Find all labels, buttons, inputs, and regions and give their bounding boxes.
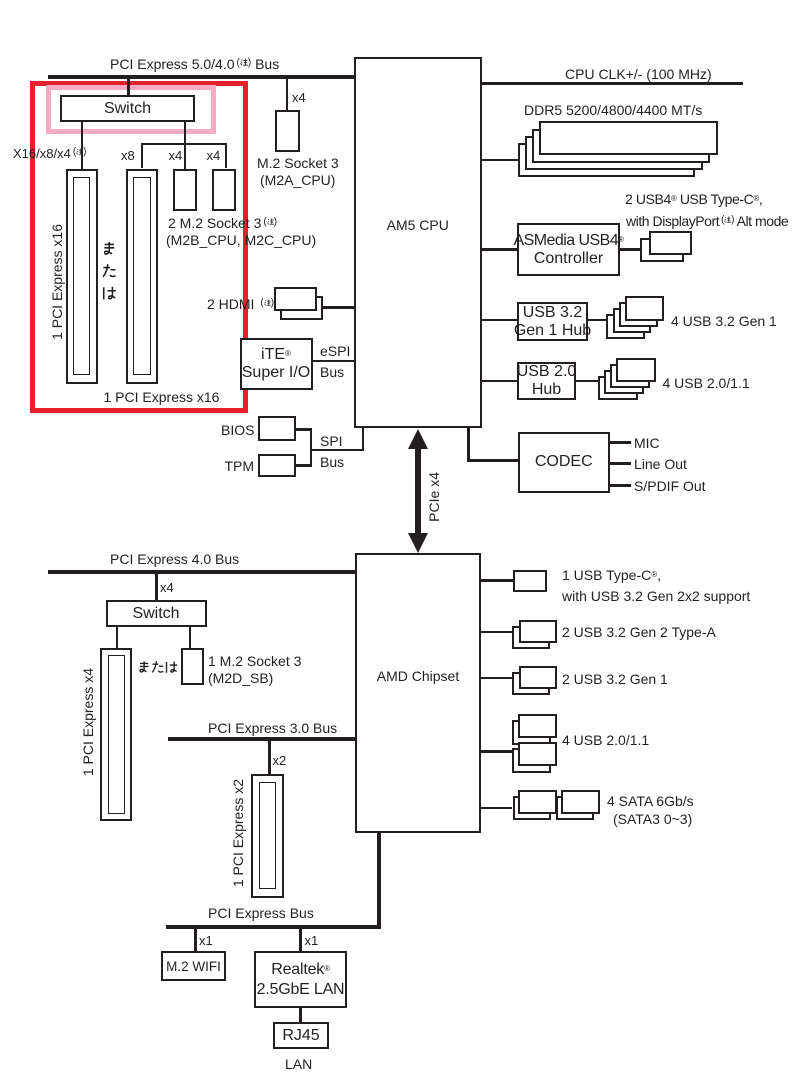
PCIe x16 slot 1 inner [73,177,91,375]
label 1 PCI Express x16 (bottom) [104,389,220,405]
wire branch to M.2 box B (x4) [225,143,227,169]
USB 3.2 Gen 1 Hub U3 [517,302,588,341]
ASMedia USB4 controller U2 [517,223,620,276]
label x4 (second) [207,148,221,164]
USB4 Type-C connector front [649,231,692,255]
label BIOS [221,422,254,438]
wire bus to PCIe x2 slot (x2) [268,741,271,775]
wire SPI bus horizontal [310,449,364,451]
PCIe x2 slot outer [251,774,284,898]
USB 3.2 connector rect 2 [619,302,658,327]
bus: PCI Express 3.0 thick bus [168,737,356,741]
wire chipset to USB Type-C [481,579,513,582]
PCIe x4 slot outer [100,648,132,821]
DDR5 DIMM rect 3 [525,136,703,170]
label AM5 CPU [354,217,482,233]
wire SPI vertical join [310,428,312,466]
USB 2.0 pair 2 back rect [512,748,551,773]
PCIe x4 arrow head up [408,429,428,449]
label x1 (WIFI) [199,933,213,949]
wire hub to USB 2.0 connectors [576,380,598,383]
USB 3.2 connector rect 3 [613,308,652,333]
wire chipset to USB 2.0 connectors [481,750,512,753]
label LAN [285,1056,312,1072]
label mataha (horizontal) [137,660,178,675]
label M.2 Socket 3 [257,155,339,171]
BIOS box [258,416,297,441]
wire switch 2 to PCIe x4 slot [116,627,119,648]
USB 2.0 pair 1 front rect [518,714,557,738]
USB 2.0 Hub U4 [517,362,576,400]
CPU U1 AM5 [354,57,482,428]
label MIC [634,435,660,451]
USB Type-C connector [513,570,547,592]
SATA right back rect [556,796,595,821]
USB 3.2 connector rect 1 [625,296,664,321]
bus: PCI Express 5.0/4.0 thick bus [48,75,354,79]
wire switch to PCIe x16 slot 1 [81,122,83,169]
USB 3.2 connector rect 4 [606,314,645,339]
switch U_SW2 [106,600,207,627]
label TPM [225,458,255,474]
annotation pink rectangle [46,85,216,134]
Realtek 2.5GbE LAN U7 [254,951,347,1008]
wire bus to switch 2 (x4) [155,573,158,600]
label x1 (LAN) [305,933,319,949]
wire to CODEC (horizontal) [467,459,518,462]
HDMI connector front rect [274,287,318,311]
label (M2D_SB) [208,670,273,686]
USB4 Type-C connector back [640,238,684,262]
wire switch to branch [184,122,186,169]
label (M2A_CPU) [260,172,335,188]
CODEC U5 [518,432,611,494]
wire CPU to USB 2.0 hub [482,380,518,383]
SATA right front rect [561,790,600,814]
wire chipset to USB 3.2 Gen 2 Type-A [481,631,512,634]
wire chipset down to PCI Express bus [377,832,381,929]
wire CODEC to S/PDIF Out [610,484,631,487]
label 4 USB 2.0/1.1 [663,375,750,391]
wire bus to switch [127,79,130,96]
wire bus to M.2 WIFI (x1) [194,929,197,951]
AMD Chipset U6 [355,553,481,833]
USB 2.0 pair 1 back rect [512,720,551,745]
USB 2.0 connector rect 3 [604,370,644,394]
wire HDMI to CPU [321,306,354,308]
label 4 SATA 6Gb/s [607,793,694,809]
label 4 USB 2.0/1.1 (chipset) [562,732,649,748]
wire CPU to DDR5 [482,159,519,162]
wire CODEC to MIC [610,441,631,444]
label X16/x8/x4 (note) [13,146,87,162]
PCIe x4 arrow head down [408,533,428,553]
bus: PCI Express thick bus [166,925,381,929]
DDR5 DIMM rect 1 [539,121,718,155]
label (M2B_CPU, M2C_CPU) [166,232,316,248]
wire TPM to SPI node [296,464,311,466]
rotated label 1 PCI Express x4 [80,668,96,776]
wire BIOS to SPI node [296,428,311,430]
wire CPU down to CODEC (vertical) [467,428,470,462]
label 2 M.2 Socket 3 (note) [168,215,277,231]
wire branch to slot 2 (x8) [141,143,143,169]
label 2 USB 3.2 Gen 2 Type-A [562,624,716,640]
M.2 WIFI box [161,951,226,981]
wire bus to M.2 socket M2A [286,79,289,110]
label PCI Express Bus [208,905,314,921]
wire chipset to USB 3.2 Gen 1 [481,677,512,680]
label x8 [121,148,135,164]
USB 2.0 connector rect 1 [616,358,656,382]
label SPI [320,433,343,449]
USB 3.2 Gen 1 back rect [512,672,550,695]
TPM box [258,454,297,477]
wire ASMedia to USB4 connectors [620,248,640,251]
label S/PDIF Out [634,478,706,494]
USB 2.0 connector rect 2 [610,364,650,388]
DDR5 DIMM rect 2 [532,129,711,163]
wire CPU to USB 3.2 hub [482,319,518,322]
PCIe x16 slot 2 outer [126,169,158,384]
M.2 socket box A (M2B_CPU) [173,169,197,211]
PCIe x16 slot 2 inner [133,177,151,375]
wire switch 2 to M2D [189,627,192,648]
label AMD Chipset [355,668,481,684]
label Line Out [634,456,687,472]
label with DisplayPort (note) Alt mode [626,213,788,229]
M.2 socket box (M2D_SB) [181,648,204,686]
label x4 (M2A) [292,90,306,106]
label x4 (first) [169,148,183,164]
rotated label 1 PCI Express x16 [49,224,65,340]
wire CPU CLK [482,82,744,85]
label 4 USB 3.2 Gen 1 [671,313,777,329]
annotation red rectangle [30,81,248,413]
DDR5 DIMM rect 4 [518,143,695,177]
label DDR5 5200/4800/4400 MT/s [524,102,702,118]
HDMI connector back rect [280,296,323,320]
M.2 socket box (M2A_CPU) [275,110,300,153]
wire iTE to CPU (eSPI bus) [312,360,354,362]
label x2 [273,753,287,769]
PCIe x16 slot 1 outer [66,169,98,384]
PCIe x2 slot inner [259,782,276,889]
wire CODEC to Line Out [610,462,631,465]
iTE Super I/O U_SIO [240,338,313,390]
label CPU CLK+/- (100 MHz) [565,66,712,82]
label with USB 3.2 Gen 2x2 support [562,588,750,604]
wire hub to USB 3.2 connectors [588,319,607,322]
rotated label 1 PCI Express x2 [230,779,246,887]
label PCI Express 4.0 Bus [110,551,239,567]
USB 3.2 Gen 2 Type-A front rect [519,620,557,643]
RJ45 connector box [273,1022,329,1049]
SATA left back rect [513,796,552,821]
wire branch horizontal [141,143,228,145]
switch U_SW1 [60,95,195,122]
label 1 M.2 Socket 3 [208,653,301,669]
label 1 USB Type-C [562,567,661,583]
text: PCI Express 5.0/4.0 (note) Bus [110,56,279,72]
label eSPI [320,343,350,359]
PCIe x4 slot inner [108,655,126,814]
wire chipset to SATA [481,807,512,810]
label Bus (eSPI) [320,364,344,380]
bus: PCI Express 4.0 thick bus [48,570,355,574]
rotated label PCIe x4 [426,472,442,522]
wire bus to Realtek (x1) [299,929,302,951]
label (SATA3 0~3) [613,811,692,827]
wire CPU to ASMedia [482,248,518,251]
label 2 USB 3.2 Gen 1 [562,671,668,687]
wire SPI bus up to CPU [362,428,364,451]
label Bus (SPI) [320,454,344,470]
label 2 USB4 USB Type-C [625,191,762,207]
M.2 socket box B (M2C_CPU) [212,169,236,211]
label PCI Express 3.0 Bus [208,720,337,736]
SATA left front rect [518,790,557,814]
USB 2.0 connector rect 4 [598,376,638,400]
wire Realtek to RJ45 [299,1008,302,1022]
USB 2.0 pair 2 front rect [518,742,557,766]
USB 3.2 Gen 2 Type-A back rect [512,626,550,649]
USB 3.2 Gen 1 front rect [519,666,557,689]
label x4 (switch 2) [160,580,174,596]
label mataha (vertical) [101,241,117,301]
label 2 HDMI (note) [207,296,274,312]
PCIe x4 arrow body [415,447,421,535]
